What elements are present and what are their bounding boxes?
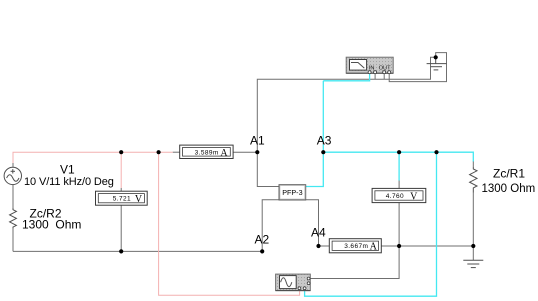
wire top rail from A1 up to ground (gray) (257, 57, 434, 152)
junction dot ammeter2 right (397, 244, 401, 248)
node A1 (255, 150, 259, 154)
wire ammeter2 right lead (381, 245, 399, 247)
svg-text:A: A (370, 242, 378, 253)
wire cyan bode IN+ to A3 (323, 73, 369, 81)
svg-text:1300 Ohm: 1300 Ohm (22, 217, 81, 231)
svg-text:3.589m: 3.589m (195, 149, 219, 156)
wire ground2 stem (472, 246, 474, 260)
junction dot ground top-right (434, 55, 438, 59)
wire scope right terminal to rail (311, 246, 400, 279)
wire V1 top lead (12, 163, 14, 168)
wire cyan scope channel B (305, 152, 437, 296)
node A3 red marker (323, 143, 324, 144)
wire ammeter1 right lead to A1 (233, 151, 257, 153)
junction dot right rail voltmeter tap (397, 150, 401, 154)
source V1 (4, 167, 21, 184)
junction dot bottom-left rail (119, 249, 123, 253)
svg-text:Zc/R1: Zc/R1 (493, 167, 525, 181)
wire bottom-right rail (399, 245, 473, 247)
ammeter 3.667m (329, 239, 381, 253)
subcircuit PFP-3 (279, 185, 306, 200)
instrument bode plotter (346, 57, 393, 73)
voltmeter 4.760 (372, 188, 426, 202)
wire pink scope channel A (159, 152, 300, 295)
svg-text:V: V (135, 194, 143, 205)
wire pink voltmeter1 top (120, 152, 122, 188)
svg-text:4.760: 4.760 (386, 193, 404, 200)
wire voltmeter2 top lead gray (398, 181, 400, 189)
svg-text:3.667m: 3.667m (344, 243, 368, 250)
resistor Zc/R2 (10, 208, 17, 229)
junction dot pink rail 1 (119, 150, 123, 154)
wire voltmeter V1 top lead gray (120, 188, 122, 191)
svg-text:A: A (220, 148, 228, 159)
svg-text:PFP-3: PFP-3 (282, 188, 302, 197)
wire V1 bottom lead to R2 (12, 185, 14, 209)
wire Zc/R1 top lead gray (472, 161, 474, 167)
wire cyan right rail to Zc/R1 (323, 152, 473, 161)
node A3 (321, 150, 325, 154)
wire A1 down to PFP-3 left (257, 152, 279, 186)
svg-text:V: V (410, 191, 418, 202)
ground bottom-right (463, 260, 483, 267)
junction dot Zc/R1 bottom (471, 244, 475, 248)
instrument oscilloscope (276, 274, 311, 291)
svg-text:A3: A3 (317, 133, 332, 147)
svg-text:A1: A1 (250, 133, 265, 147)
wire bottom-left rail (13, 250, 262, 252)
node A2 (260, 249, 264, 253)
svg-text:5.721: 5.721 (113, 196, 131, 203)
junction dot pink rail 2 (157, 150, 161, 154)
wire bode OUT+ drop (383, 73, 385, 80)
wire R2 bottom lead (12, 229, 14, 252)
wire cyan A3 down to PFP-3 right (306, 152, 324, 186)
svg-text:1300 Ohm: 1300 Ohm (482, 183, 536, 195)
ground top-right (427, 57, 447, 70)
wire pink top rail from V1 (13, 152, 173, 163)
wire voltmeter V1 bottom (120, 205, 122, 251)
wire PFP-3 right-bottom to A4 (306, 200, 319, 246)
node A4 (316, 244, 320, 248)
svg-text:10 V/11 kHz/0 Deg: 10 V/11 kHz/0 Deg (24, 176, 114, 188)
wire bode OUT- loop to ground (389, 53, 446, 82)
wire ammeter2 left lead (319, 245, 330, 247)
wire cyan A3 vertical (322, 81, 324, 152)
voltmeter U1 5.721 (96, 191, 148, 205)
wire PFP-3 left-bottom to A2 (262, 200, 279, 252)
wire cyan voltmeter2 top (398, 152, 400, 180)
wire ammeter1 left lead (173, 151, 180, 153)
svg-text:A2: A2 (255, 232, 270, 246)
junction dot right rail scope tap (434, 150, 438, 154)
ammeter 3.589m (180, 145, 233, 159)
wire bode IN- drop (374, 73, 376, 80)
svg-text:V1: V1 (60, 163, 75, 177)
resistor Zc/R1 (470, 167, 477, 193)
wire voltmeter2 bottom (398, 203, 400, 246)
svg-text:A4: A4 (311, 226, 326, 240)
wire Zc/R1 bottom lead (472, 193, 474, 247)
